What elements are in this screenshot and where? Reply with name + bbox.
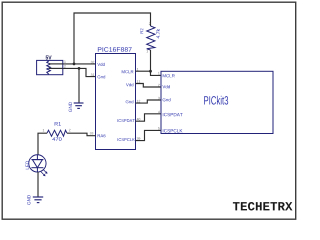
logo text TECHETRX — [233, 202, 293, 210]
wire gnd drop to ground symbol — [78, 68, 80, 102]
wire node to PICkit3 MCLR — [151, 71, 162, 75]
pin Gnd left pin 31 — [91, 74, 105, 79]
wire R1 left to LED anode — [38, 133, 47, 155]
wire LED cathode to ground — [37, 172, 39, 197]
IC PICkit3 programmer — [161, 71, 273, 133]
ground GND2 — [27, 195, 43, 205]
LED D1 — [26, 155, 48, 177]
pin ICSPDAT 4 of PICkit3 — [158, 111, 183, 116]
wire PIC Gnd 12 to PICkit3 Gnd — [136, 100, 162, 103]
pin ICSPCLK right pin 39 — [118, 137, 141, 141]
pin ICSPCLK 5 of PICkit3 — [158, 127, 182, 132]
pin RA6 left pin 33 — [90, 132, 106, 137]
IC U1 PIC16F887 — [96, 47, 136, 149]
wire PIC ICSPDAT to PICkit3 ICSPDAT — [136, 114, 162, 121]
junction MCLR node — [149, 70, 152, 73]
pin number 2 of J1 — [64, 65, 66, 67]
wire 5V rail up and over to R2 top — [74, 13, 151, 64]
pin MCLR 1 of PICkit3 — [158, 72, 174, 77]
wire R1 to PIC RA6 pin 33 — [67, 133, 96, 136]
wire PIC MCLR pin to node — [136, 70, 151, 72]
pin ICSPDAT right pin 40 — [117, 118, 140, 122]
ground GND1 — [69, 102, 84, 112]
wire R2 bottom to MCLR node — [150, 50, 152, 71]
resistor R2 4.7k pullup — [140, 23, 160, 53]
pin Vdd right pin 11 — [126, 80, 140, 86]
pin Gnd right pin 12 — [126, 100, 141, 103]
wire PIC Vdd 11 to PICkit3 Vdd — [136, 84, 162, 88]
junction node gnd — [78, 67, 81, 70]
wire PIC ICSPCLK to PICkit3 ICSPCLK — [136, 130, 162, 140]
connector J1 5V input — [37, 55, 63, 74]
pin number 1 of J1 — [64, 60, 65, 62]
wire connector pin1 to PIC Vdd pin 32 — [63, 63, 96, 65]
wire connector pin2 to PIC Gnd pin 31 — [63, 68, 96, 76]
pin MCLR right pin 1 — [122, 68, 139, 73]
junction node 5V/Vdd — [73, 63, 76, 66]
pin Gnd 3 of PICkit3 — [158, 97, 170, 102]
pin Vdd left pin 32 — [91, 61, 105, 66]
pin Vdd 2 of PICkit3 — [158, 84, 170, 88]
resistor R1 470 — [43, 122, 71, 141]
